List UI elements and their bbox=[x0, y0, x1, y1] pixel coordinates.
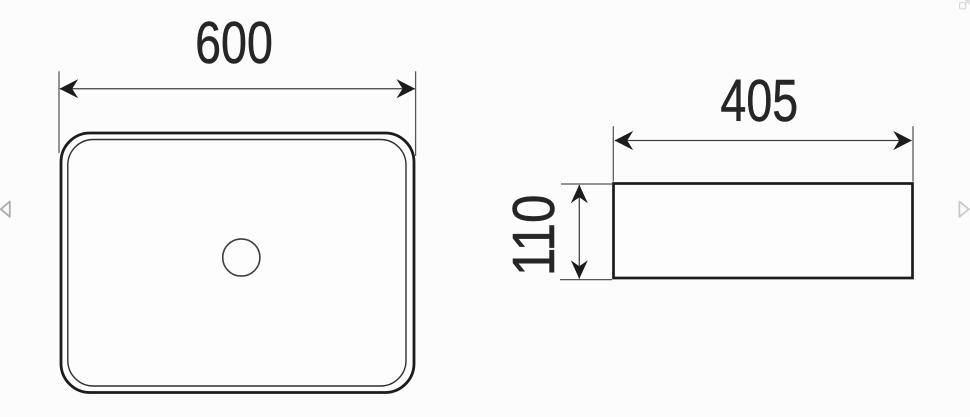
basin top view: inner rim outline bbox=[68, 140, 406, 387]
basin top view: outer outline bbox=[61, 133, 414, 393]
carousel previous arrow (left edge) bbox=[1, 202, 10, 217]
dimension 600: right extension line bbox=[415, 71, 417, 156]
dimension 600: value label bbox=[195, 11, 273, 76]
dimension 600: dimension line bbox=[60, 88, 415, 90]
dimension 405: left arrowhead bbox=[615, 131, 634, 150]
carousel next arrow (right edge) bbox=[959, 202, 968, 217]
dimension 405: right arrowhead bbox=[893, 131, 912, 150]
dimension 110: up arrowhead bbox=[571, 185, 588, 204]
dimension 405: left extension line bbox=[612, 126, 614, 181]
dimension 600: right arrowhead bbox=[397, 79, 416, 98]
drain hole circle bbox=[223, 239, 260, 276]
svg-text:405: 405 bbox=[720, 69, 798, 134]
dimension 110: dimension line bbox=[578, 185, 580, 279]
dimension 600: left extension line bbox=[58, 71, 60, 153]
dimension 405: value label bbox=[720, 69, 798, 134]
dimension 110: down arrowhead bbox=[571, 260, 588, 279]
dimension 405: dimension line bbox=[615, 140, 912, 142]
svg-text:110: 110 bbox=[500, 194, 566, 276]
svg-text:600: 600 bbox=[195, 11, 273, 76]
dimension 110: value label (rotated) bbox=[500, 194, 566, 276]
basin side view rectangle bbox=[614, 184, 913, 279]
expand icon (top-right corner, faint) bbox=[960, 1, 969, 9]
dimension 110: top extension line bbox=[561, 183, 612, 185]
dimension 600: left arrowhead bbox=[60, 79, 79, 98]
dimension 405: right extension line bbox=[912, 126, 914, 181]
dimension 110: bottom extension line bbox=[560, 279, 612, 281]
